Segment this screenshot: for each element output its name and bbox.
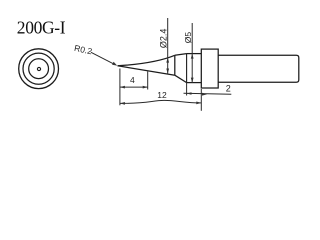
dim line Ø2.4 <box>167 18 169 74</box>
dim 4 arrow right <box>143 86 148 89</box>
dim Ø5 arrow down <box>191 78 194 83</box>
collar rectangle <box>201 49 218 88</box>
cylinder top <box>187 53 202 55</box>
svg-text:200G-I: 200G-I <box>17 18 66 38</box>
leader arrow <box>112 62 117 66</box>
extension line cylinder start x=186.6 <box>186 83 188 96</box>
shank rectangle <box>218 55 299 82</box>
front view outer circle <box>19 49 59 89</box>
cone top edge <box>118 55 175 66</box>
extension line collar left x=201.3 <box>200 89 202 111</box>
svg-text:4: 4 <box>130 75 135 85</box>
dim line 4 <box>120 86 148 88</box>
dim Ø2.4 arrow down <box>166 69 169 74</box>
svg-text:2: 2 <box>226 84 231 94</box>
flare bottom edge <box>175 75 187 82</box>
extension line at tip x=119.9 <box>119 69 121 106</box>
dim 2 arrow pointing right at x=207.2 <box>202 93 207 96</box>
dim 2 arrow pointing left at x=186.7 <box>187 92 192 95</box>
front view ring circle <box>23 53 54 84</box>
svg-text:12: 12 <box>157 90 167 100</box>
dim 4 arrow left <box>120 86 125 89</box>
extension line at x=147.7 <box>147 72 149 90</box>
dim line 12 <box>120 100 201 103</box>
front view inner circle <box>29 59 49 79</box>
cone end face <box>174 55 176 75</box>
dim Ø5 arrow up <box>191 54 194 59</box>
cone bottom edge <box>118 66 175 75</box>
dim Ø2.4 arrow up <box>166 58 169 63</box>
dim 12 arrow left <box>120 102 125 105</box>
dim 12 arrow right <box>196 102 201 105</box>
cylinder bottom <box>187 82 202 84</box>
flare/cylinder junction <box>186 54 188 83</box>
front view center dot <box>37 67 40 70</box>
dim line 2 <box>184 93 232 94</box>
flare top edge <box>175 54 187 56</box>
dim line Ø5 <box>191 23 193 83</box>
leader line R0.2 <box>91 52 115 64</box>
svg-text:Ø2.4: Ø2.4 <box>158 29 168 49</box>
